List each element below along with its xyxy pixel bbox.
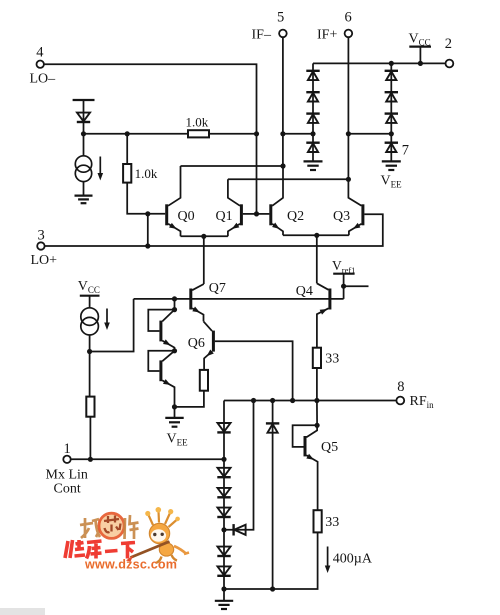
svg-text:5: 5 [277, 10, 284, 26]
arrow I2 direction [104, 309, 110, 331]
Q4 emitter [317, 308, 329, 347]
watermark logo [0, 507, 189, 615]
transistor Q1 base bar [240, 204, 243, 225]
junction LO- bias node [254, 131, 259, 136]
wire RF line [224, 400, 396, 402]
Q1 base [243, 213, 257, 215]
wire I1 to ground [83, 182, 85, 195]
junction right chain top [389, 61, 394, 66]
terminal 1 [63, 456, 70, 463]
terminal 2 [446, 60, 454, 68]
svg-text:8: 8 [397, 379, 404, 395]
Q3 emitter [349, 224, 362, 236]
Q2 emitter [272, 224, 283, 236]
Q9 collector [162, 351, 174, 361]
diode D2 [306, 71, 319, 80]
Q8 emitter [162, 341, 174, 351]
Q7 emitter [192, 308, 203, 321]
Q1 emitter [228, 224, 240, 237]
svg-text:1: 1 [64, 441, 71, 457]
diode D15 (horizontal) [234, 524, 246, 535]
transistor Q7 base bar [189, 289, 192, 310]
wire Q0 base node down to LO+ [147, 214, 149, 246]
wire bottom rail [224, 532, 318, 589]
svg-text:400µA: 400µA [333, 552, 373, 567]
wire to VEE ground [174, 407, 176, 418]
svg-text:LO–: LO– [30, 72, 57, 87]
terminal 4 [37, 60, 44, 67]
svg-text:Q6: Q6 [188, 336, 205, 351]
svg-text:Q0: Q0 [178, 209, 195, 224]
resistor R4 [200, 370, 208, 391]
wire bar to node A (through D1) [83, 101, 85, 134]
diode D9 [385, 143, 398, 152]
svg-text:1.0k: 1.0k [135, 166, 158, 181]
VCC bar left [80, 295, 100, 297]
Q9 emitter arrow [163, 379, 172, 387]
junction IF- / collectors [280, 163, 285, 168]
junction mirror mid [172, 348, 177, 353]
diode D13 [217, 508, 230, 517]
resistor R6 33 [314, 510, 322, 532]
Q3 emitter arrow [352, 223, 361, 231]
transistor Q4 base bar [328, 289, 331, 310]
wire Q1-Q3 collector line [228, 178, 349, 180]
svg-text:Q7: Q7 [209, 281, 226, 296]
svg-text:Q2: Q2 [287, 209, 304, 224]
diode D7 [385, 92, 398, 101]
diode D6 [385, 71, 398, 80]
svg-text:1.0k: 1.0k [186, 115, 209, 130]
wire R5 to RF line [316, 368, 318, 401]
wire node to riser (through D15) [224, 401, 254, 530]
wire RF to bottom rail (through D14) [272, 401, 274, 590]
junction right chain tap [389, 131, 394, 136]
wire base rail corner to Vref [343, 274, 345, 299]
Q5 emitter arrow [306, 454, 315, 462]
junction RF/chain2 [251, 398, 256, 403]
svg-text:Q3: Q3 [333, 209, 350, 224]
wire VCC bar stub [419, 47, 421, 64]
wire Vref stub right [344, 285, 369, 287]
junction Q5 collector/base [315, 423, 320, 428]
transistor Q9 base bar (diode-connected) [159, 360, 162, 381]
junction VEE ground node [172, 404, 177, 409]
wire R3 to Mx line [89, 417, 91, 460]
resistor R2 1.0k [123, 164, 131, 183]
Q4 collector [317, 283, 329, 290]
transistor Q2 base bar [269, 204, 272, 225]
wire left chain [312, 63, 314, 161]
wire R2 to Q0 base node [127, 183, 148, 214]
terminal 5 [279, 30, 287, 38]
Q6 emitter [204, 351, 212, 370]
Q7 collector [192, 284, 204, 290]
Q2 base [257, 213, 270, 215]
junction Q0 base node [145, 211, 150, 216]
Q2 emitter arrow [272, 223, 281, 232]
junction I2 output [87, 349, 92, 354]
Q3 collector [348, 179, 361, 206]
svg-text:2: 2 [445, 36, 452, 52]
junction IF- chain tap [280, 131, 285, 136]
wire I2 to node [89, 335, 91, 352]
wire VCC to I2 [89, 296, 91, 308]
diode D17 [217, 566, 230, 575]
wire node A to R1 [84, 133, 189, 135]
junction Vcc stub [418, 61, 423, 66]
wire LO- node to Q1/Q2 bases [256, 134, 258, 214]
ground (I1) [75, 196, 93, 204]
transistor Q6 base bar [212, 331, 215, 352]
Q0 emitter arrow [169, 223, 178, 231]
Q7 emitter arrow [192, 307, 201, 315]
svg-text:33: 33 [325, 352, 339, 367]
Q8 base loop [148, 310, 174, 331]
terminal 6 [345, 30, 353, 38]
Q2 collector [272, 166, 283, 206]
wire node A to I1 [83, 134, 85, 156]
svg-text:6: 6 [345, 10, 352, 26]
Q5 emitter [306, 455, 317, 510]
diode D12 [217, 488, 230, 497]
arrow I1 direction [98, 157, 104, 181]
resistor R1 1.0k [188, 130, 209, 137]
wire I2 to base rail [90, 299, 134, 352]
Q1 emitter arrow [230, 223, 239, 231]
wire Q0-Q1 emitter rail [181, 235, 228, 237]
wire Q2-Q3 emitter rail [283, 234, 349, 236]
Q8 collector [162, 310, 174, 322]
diode D8 [385, 114, 398, 123]
wire Q0-Q2 collector line [181, 165, 284, 167]
wire right chain [390, 63, 392, 161]
terminal 8 [396, 397, 404, 405]
junction bottom rail [221, 586, 226, 591]
svg-text:4: 4 [36, 45, 44, 61]
svg-text:IF+: IF+ [317, 28, 337, 43]
diode D3 [306, 92, 319, 101]
wire IF- tap to left chain [283, 133, 313, 135]
Q8 emitter arrow [163, 339, 172, 347]
transistor Q8 base bar (diode-connected) [159, 321, 162, 342]
junction Vref [341, 284, 346, 289]
svg-text:IF–: IF– [252, 28, 272, 43]
junction LO+ / Q0 base [145, 243, 150, 248]
transistor Q0 base bar [165, 204, 168, 225]
transistor Q3 base bar [361, 204, 364, 225]
junction IF+ / collectors [346, 177, 351, 182]
junction Mx line / R3 [88, 457, 93, 462]
diode D14 [266, 423, 279, 432]
diode D16 [217, 547, 230, 556]
wire LO+ line [45, 214, 383, 246]
node A junction [81, 131, 86, 136]
svg-text:LO+: LO+ [31, 253, 58, 268]
Q4 emitter arrow (PNP style) [320, 307, 329, 315]
diode D1 (bias) [77, 113, 90, 122]
wire rail to mirror [174, 299, 176, 310]
wire IF+ tap to right chain [348, 133, 391, 135]
Q6 base [215, 341, 293, 400]
wire VCC top rail [313, 62, 446, 64]
diode D11 [217, 468, 230, 477]
svg-text:7: 7 [402, 143, 409, 159]
power bar (bias) [73, 99, 95, 101]
wire Q7/Q4 base rail [134, 298, 344, 300]
svg-text:3: 3 [38, 228, 45, 244]
Q0 emitter [168, 224, 180, 237]
wire LO- to Q1/Q2 base node [44, 64, 257, 134]
wire RF to Q5 node [316, 401, 318, 426]
wire IF+ vertical [347, 37, 349, 179]
wire Mx Lin Cont line [71, 458, 224, 460]
svg-text:Q1: Q1 [216, 209, 233, 224]
current source I2 [81, 308, 99, 335]
svg-text:Cont: Cont [54, 482, 81, 497]
ground (left chain) [304, 161, 323, 170]
ground (VEE) [165, 418, 183, 427]
wire emitters to Q7 collector [203, 236, 205, 284]
junction chain / D15 [221, 527, 226, 532]
junction Mx line / chain [221, 457, 226, 462]
junction RF/R5 [314, 398, 319, 403]
Q5 collector [306, 425, 317, 437]
Q0 collector [168, 166, 180, 206]
Q9 base loop [148, 351, 174, 371]
Vref bar [333, 273, 354, 275]
Q6 emitter arrow [205, 349, 214, 358]
wire node to R2 [126, 134, 128, 164]
junction R2 top [125, 131, 130, 136]
junction Q2/Q3 emitters [314, 233, 319, 238]
Q6 collector [204, 321, 213, 331]
wire I2 node to R3 [89, 352, 91, 397]
junction Q0/Q1 emitters [201, 234, 206, 239]
junction left chain tap [310, 131, 315, 136]
wire Q0 base [148, 213, 165, 215]
ground (bottom) [215, 601, 233, 609]
terminal 3 [37, 242, 44, 249]
resistor R3 [86, 397, 94, 417]
wire IF- vertical [282, 37, 284, 166]
wire ground node to R4 [175, 391, 204, 407]
wire R1 to LO- node [209, 133, 257, 135]
junction bottom rail / D14 [270, 586, 275, 591]
VCC bar [409, 45, 431, 47]
current source I1 [75, 156, 91, 182]
junction RF/D14 [270, 398, 275, 403]
junction base rail / mirror [172, 296, 177, 301]
svg-text:33: 33 [325, 515, 339, 530]
ground (right chain) [382, 161, 401, 170]
svg-text:Mx Lin: Mx Lin [46, 468, 88, 483]
wire emitters to Q4 collector [316, 235, 318, 283]
wire bottom diode chain [223, 401, 225, 601]
svg-text:Q4: Q4 [296, 284, 313, 299]
junction Q1/Q2 bases [254, 211, 259, 216]
junction RF/Q6 base [290, 398, 295, 403]
junction IF+ chain tap [346, 131, 351, 136]
Q5 base loop [293, 425, 318, 447]
Q1 collector [228, 179, 240, 206]
Q9 emitter [162, 380, 174, 407]
resistor R5 33 [313, 348, 321, 368]
diode D5 [306, 143, 319, 152]
svg-text:Q5: Q5 [321, 440, 338, 455]
diode D4 [306, 114, 319, 123]
arrow 400uA [325, 547, 331, 574]
diode D10 [217, 423, 230, 432]
transistor Q5 base bar [304, 436, 307, 456]
junction mirror top [172, 307, 177, 312]
